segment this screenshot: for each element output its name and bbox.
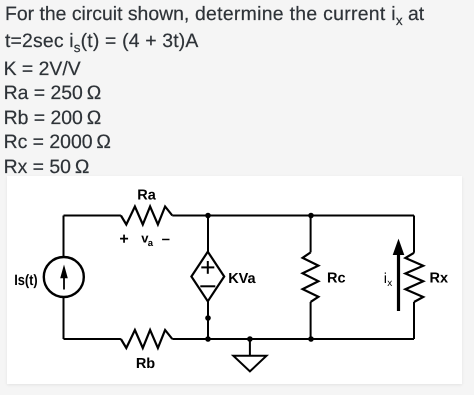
svg-text:Ra: Ra: [137, 187, 156, 203]
voltage label + va -: [119, 230, 170, 249]
resistor Rb: [121, 330, 172, 348]
svg-text:x: x: [387, 278, 392, 289]
label Rc: [327, 271, 346, 287]
label KVa: [228, 271, 256, 287]
label Rb: [136, 356, 155, 372]
wire top right of Ra: [172, 215, 414, 217]
wire Rc branch top lead: [310, 216, 312, 253]
node dot on top wire at diamond branch: [205, 213, 211, 219]
current source Is: [44, 257, 84, 297]
node dot on top wire at Rc branch: [308, 213, 314, 219]
svg-text:Rb: Rb: [136, 356, 155, 372]
node dot below dependent source: [205, 315, 211, 321]
wire Rc branch bottom lead: [310, 302, 312, 339]
white schematic card: [7, 176, 462, 385]
svg-text:Rx: Rx: [430, 271, 449, 287]
node dot bottom wire at diamond branch: [205, 336, 211, 342]
resistor Rx: [405, 253, 423, 302]
wire bottom right of Rb: [172, 338, 414, 340]
svg-text:Is(t): Is(t): [14, 272, 38, 289]
node dot bottom wire at ground: [247, 336, 253, 342]
wire top (with resistor Ra zigzag inline): [64, 215, 121, 217]
node dot bottom wire at Rc branch: [308, 336, 314, 342]
label Ra: [137, 187, 156, 203]
svg-text:KVa: KVa: [228, 271, 256, 287]
label Is(t): [14, 272, 38, 289]
svg-text:–: –: [162, 230, 170, 247]
wire Rx branch bottom lead: [413, 302, 415, 339]
wire Rx branch top lead: [413, 216, 415, 253]
dependent source U1 (KVa diamond): [191, 252, 224, 302]
problem statement text: [5, 4, 424, 24]
svg-text:a: a: [148, 238, 154, 249]
resistor Rc: [303, 252, 319, 302]
wire from dependent source down to bottom wire: [207, 301, 209, 339]
label ix: [384, 271, 393, 289]
wire left vertical (source branch): [63, 216, 65, 340]
label Rx: [430, 271, 449, 287]
svg-text:+: +: [119, 231, 128, 248]
wire from top node down to dependent source: [207, 216, 209, 252]
current arrow ix: [393, 239, 405, 311]
svg-text:Rc: Rc: [327, 271, 346, 287]
ground: [233, 339, 266, 371]
resistor Ra: [121, 207, 172, 225]
wire bottom (left of Rb): [64, 338, 121, 340]
